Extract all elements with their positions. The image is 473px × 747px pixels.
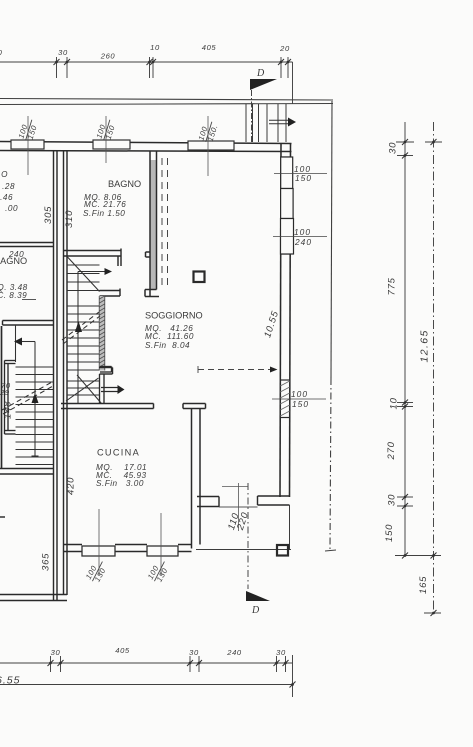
corridor arrow piece	[101, 385, 125, 394]
svg-text:30: 30	[387, 494, 398, 506]
svg-text:D: D	[251, 605, 260, 616]
porch east line	[289, 505, 291, 549]
section cut line top	[251, 90, 253, 143]
window N3	[188, 141, 234, 150]
left flight parapet	[5, 361, 16, 435]
dashed line soggiorno	[198, 366, 278, 373]
svg-text:BAGNO: BAGNO	[0, 256, 27, 266]
window label N1	[17, 117, 41, 143]
window S1	[82, 546, 115, 556]
svg-text:MC. 8.39: MC. 8.39	[0, 291, 27, 300]
porch wall right segment	[258, 496, 290, 505]
svg-text:165: 165	[418, 576, 429, 594]
svg-text:.28: .28	[2, 182, 15, 191]
terrace east edge line	[331, 101, 332, 378]
landing wall vertical hatched	[100, 296, 105, 371]
wall bagno1 right	[145, 151, 159, 297]
svg-text:260: 260	[100, 52, 116, 61]
svg-text:6.55: 6.55	[0, 675, 20, 687]
window N2	[93, 140, 130, 149]
left room bottom wall	[0, 469, 54, 475]
center stair bottom diagonals	[66, 378, 99, 401]
porch wall left segment	[197, 497, 219, 507]
stairwell right wall lower	[100, 374, 105, 404]
room1 partial texts	[0, 170, 18, 213]
svg-text:310: 310	[64, 210, 75, 228]
svg-text:10: 10	[389, 397, 400, 409]
section marker D top	[250, 68, 277, 90]
east window hatch	[280, 381, 290, 416]
svg-text:D: D	[256, 68, 265, 79]
svg-text:240: 240	[226, 648, 242, 657]
svg-text:100: 100	[294, 227, 311, 237]
dashed shower lines bagno1	[162, 158, 168, 288]
window label N2	[95, 117, 119, 143]
tick slashes top	[54, 59, 292, 65]
svg-text:.00: .00	[5, 204, 18, 213]
window S2	[147, 546, 178, 556]
svg-text:365: 365	[41, 553, 52, 571]
soggiorno texts	[145, 311, 203, 321]
left flight treads	[16, 367, 54, 465]
east fraction label 2	[273, 227, 327, 247]
svg-text:30: 30	[388, 142, 399, 154]
svg-text:S.Fin 8.04: S.Fin 8.04	[145, 341, 190, 350]
svg-text:BAGNO: BAGNO	[108, 179, 141, 189]
dimension line bottom	[0, 655, 293, 697]
svg-text:20: 20	[279, 44, 290, 53]
landing mid wall	[100, 289, 121, 297]
wall bagno1 right fill	[150, 160, 157, 289]
terrace north edge lines	[0, 99, 333, 105]
svg-text:150: 150	[292, 399, 309, 409]
porch threshold	[219, 506, 258, 508]
bagno1 texts	[108, 179, 141, 189]
svg-text:0: 0	[0, 48, 3, 57]
small tick bottom-left room	[0, 516, 5, 518]
window S labels	[98, 509, 100, 576]
label 420	[66, 477, 77, 495]
svg-text:29: 29	[0, 388, 10, 397]
center stair upper treads	[67, 265, 100, 291]
svg-text:30: 30	[189, 648, 199, 657]
right dimension line B dash-dot	[433, 122, 435, 616]
labels top dims	[0, 43, 290, 61]
dashed route center flight	[62, 312, 100, 344]
west double wall skin A	[54, 151, 58, 601]
right dimension line A	[404, 122, 406, 556]
svg-text:30: 30	[58, 48, 68, 57]
right dim ticks	[395, 142, 442, 613]
label 310	[64, 210, 75, 228]
dimension line top	[0, 57, 293, 104]
svg-text:150: 150	[295, 173, 312, 183]
svg-text:30: 30	[51, 648, 61, 657]
window N1	[11, 140, 44, 149]
east wall window boxes	[281, 157, 294, 254]
svg-text:305: 305	[43, 206, 54, 224]
center stair mid treads	[67, 306, 100, 370]
cucina east wall	[192, 409, 201, 549]
porch post square	[277, 545, 288, 556]
section marker D bottom	[246, 591, 270, 616]
label 10.55	[262, 309, 281, 339]
label 365	[41, 553, 52, 571]
route arrowhead center	[75, 321, 82, 332]
left edge wall line	[1, 326, 3, 468]
svg-text:405: 405	[202, 43, 217, 52]
tick slashes right	[402, 139, 437, 616]
svg-text:12.65: 12.65	[419, 329, 431, 362]
label 305	[43, 206, 54, 224]
leader 110/220	[238, 483, 240, 531]
svg-text:S.Fin 1.50: S.Fin 1.50	[83, 209, 125, 218]
east fraction label 3	[272, 389, 326, 409]
bottom left wall	[0, 595, 67, 601]
window label N3	[197, 119, 221, 145]
tick dots top	[55, 61, 289, 64]
svg-text:405: 405	[115, 646, 130, 655]
svg-text:O: O	[1, 170, 8, 179]
svg-text:.46: .46	[0, 193, 13, 202]
svg-text:150: 150	[384, 524, 395, 542]
porch south line	[196, 549, 291, 551]
svg-text:CUCINA: CUCINA	[97, 448, 140, 458]
landing lower wall piece	[100, 368, 113, 375]
soggiorno pillar	[194, 272, 205, 283]
cucina top wall	[61, 404, 154, 409]
route arrowhead left	[32, 393, 39, 403]
T column door jamb	[183, 404, 206, 409]
wall room1 / bagno2 divider	[0, 243, 54, 247]
cucina south wall	[64, 545, 192, 552]
svg-text:420: 420	[66, 477, 77, 495]
north wall	[0, 142, 292, 152]
svg-text:240: 240	[294, 237, 312, 247]
entry steps top right	[246, 104, 286, 142]
svg-text:30: 30	[276, 648, 286, 657]
svg-text:MC. 21.76: MC. 21.76	[84, 200, 126, 209]
svg-text:100: 100	[291, 389, 308, 399]
steps arrow	[269, 118, 296, 127]
svg-text:MC. 111.60: MC. 111.60	[145, 332, 194, 341]
svg-text:10: 10	[150, 43, 160, 52]
center stair top diagonal	[68, 257, 100, 292]
right dim labels	[388, 142, 399, 154]
stair top wall	[64, 249, 121, 267]
west double wall skin B	[64, 151, 68, 596]
wall bagno2 bottom	[3, 321, 54, 326]
stair travel line center flight	[78, 268, 112, 403]
svg-text:775: 775	[387, 277, 398, 295]
section cut line bottom	[247, 483, 249, 589]
east wall segment ticks	[280, 157, 290, 418]
tick slashes bottom	[48, 660, 296, 688]
svg-text:270: 270	[386, 441, 397, 460]
corridor stub wall	[100, 367, 112, 373]
east fraction label 1	[274, 164, 327, 183]
dashed route left flight	[2, 382, 53, 414]
svg-text:SOGGIORNO: SOGGIORNO	[145, 311, 203, 321]
left flight travel lines	[14, 325, 39, 456]
cucina texts	[97, 448, 140, 458]
center stair lower treads	[67, 381, 100, 395]
svg-text:148: 148	[3, 401, 14, 419]
east wall skins	[280, 144, 291, 498]
svg-text:S.Fin 3.00: S.Fin 3.00	[96, 479, 144, 488]
